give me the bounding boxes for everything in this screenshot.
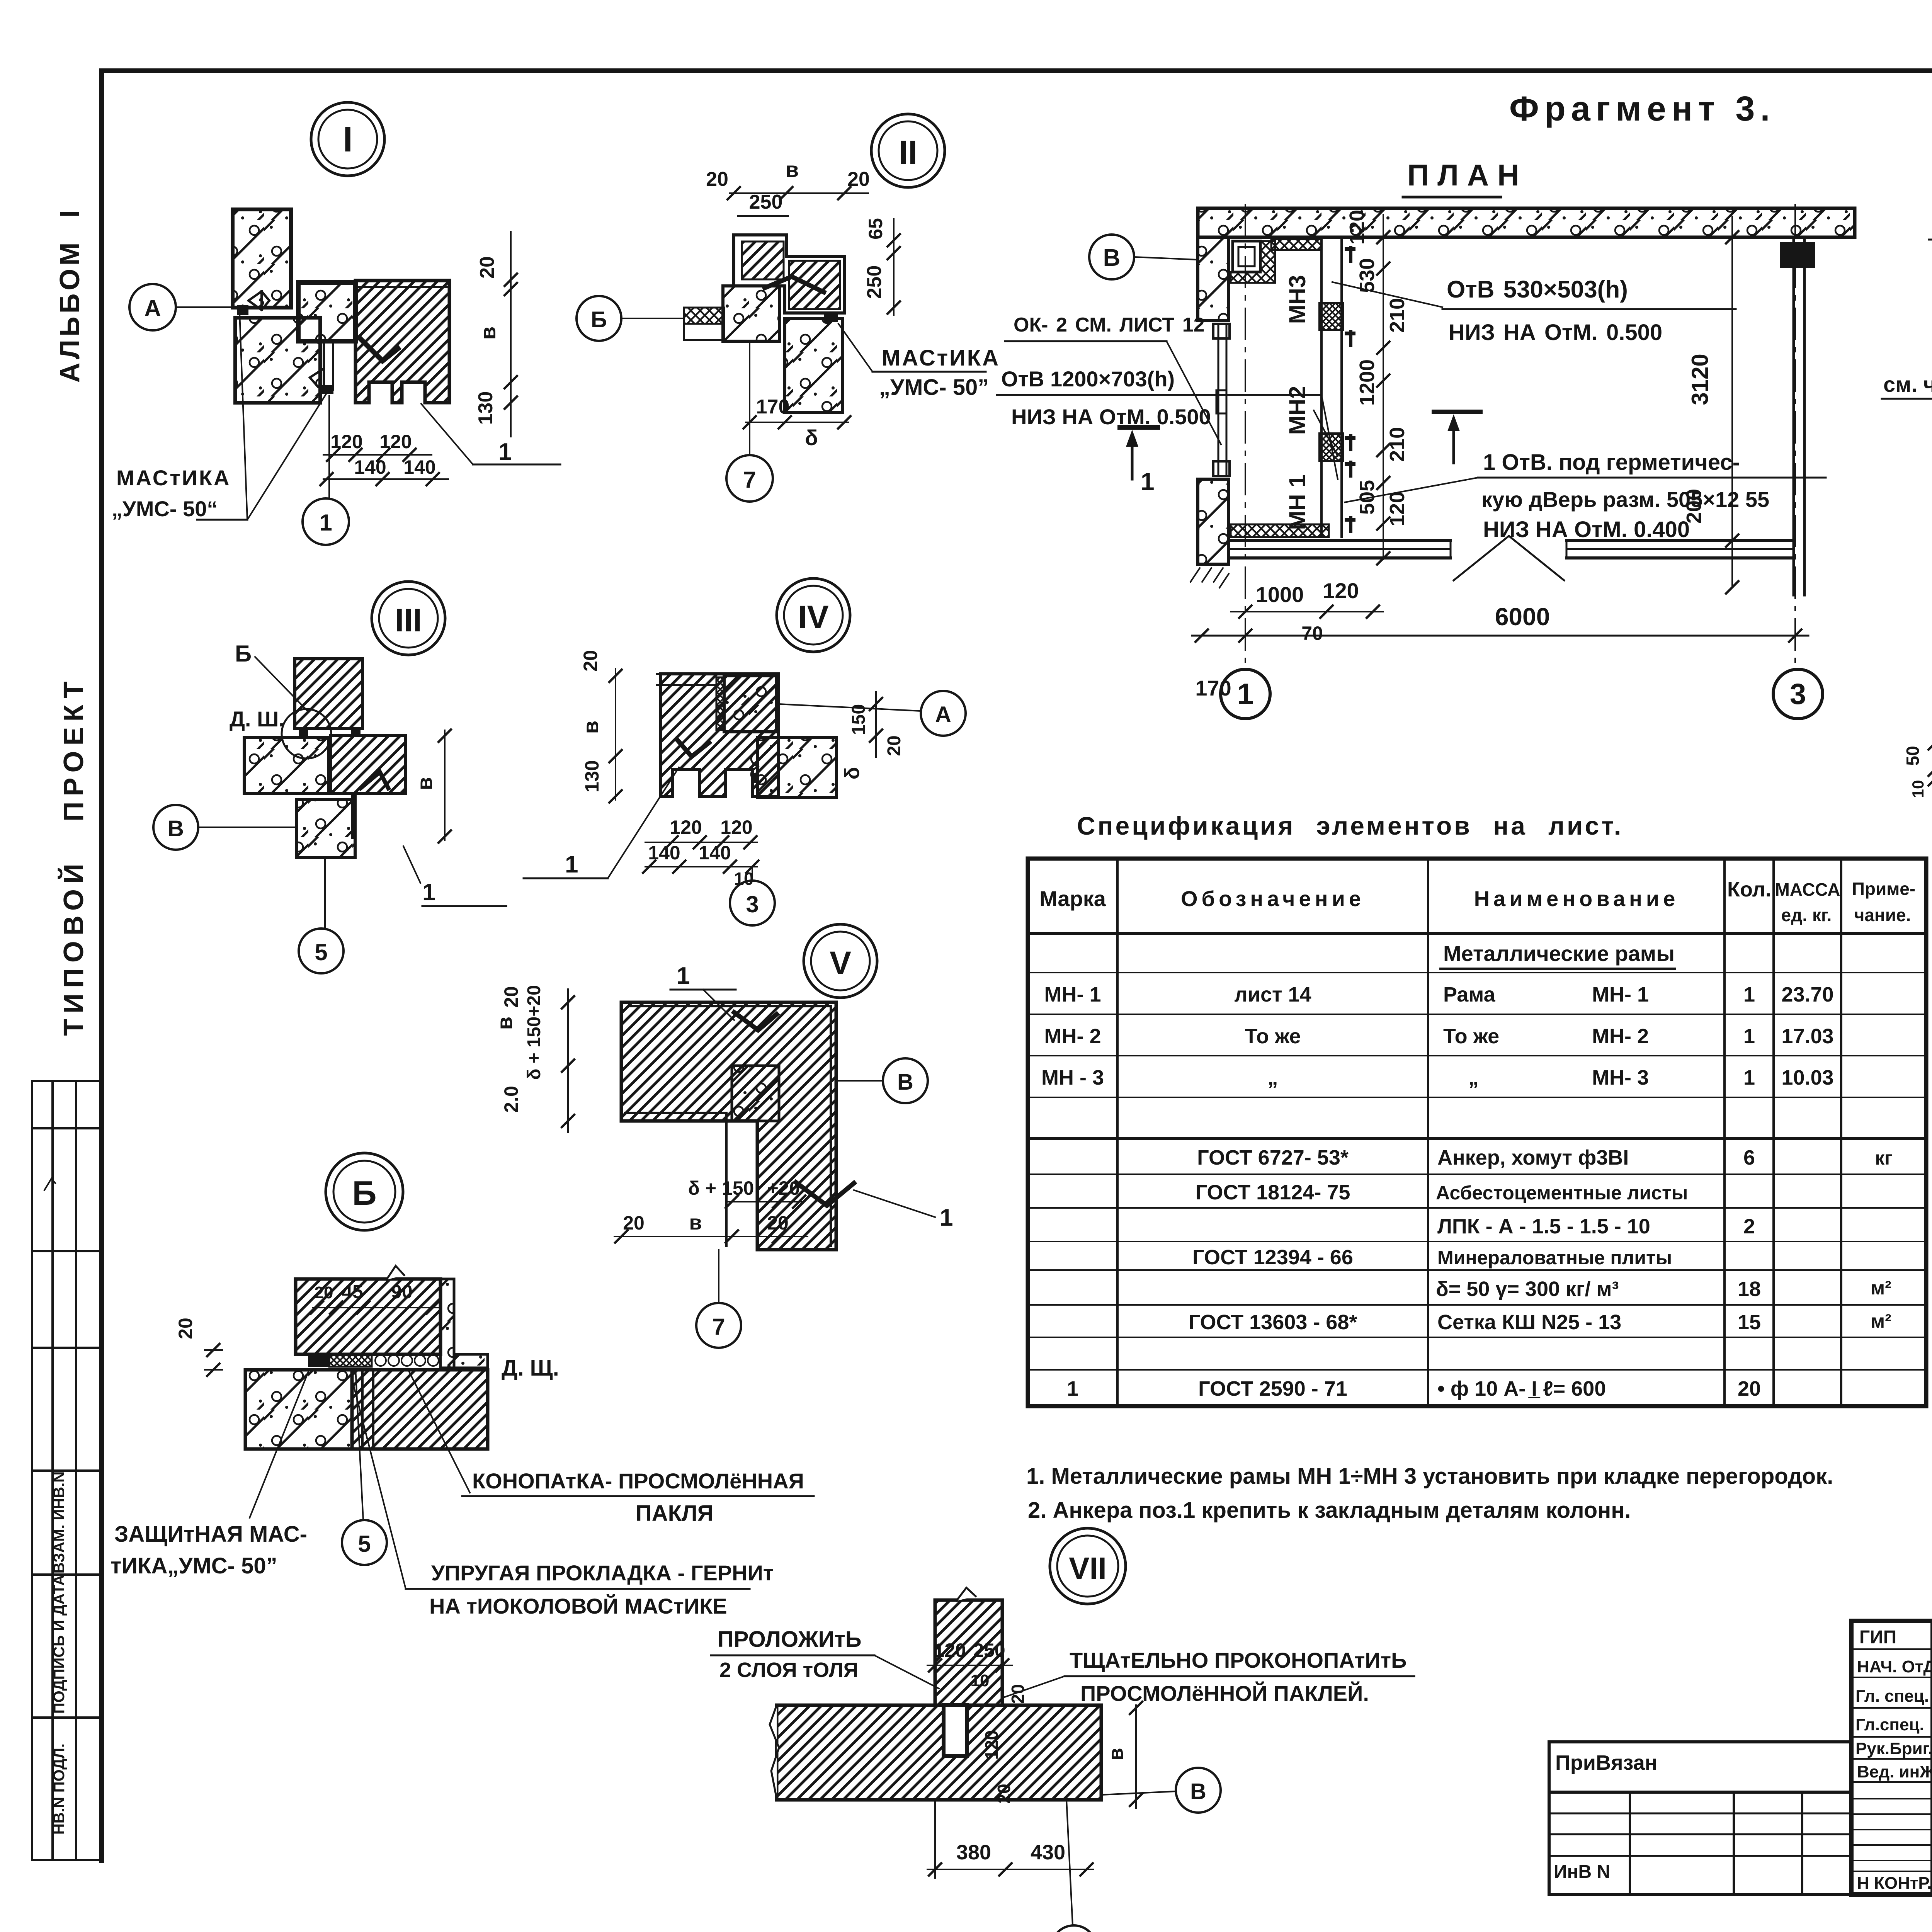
detail I view marker xyxy=(311,102,384,176)
svg-text:То же: То же xyxy=(1245,1025,1301,1048)
svg-text:МН 1: МН 1 xyxy=(1284,474,1310,530)
plan: bottom dimension chain 1000/120/70 xyxy=(1231,611,1383,612)
svg-text:20: 20 xyxy=(1008,1684,1028,1704)
plan: left wall upper segment xyxy=(1198,237,1229,321)
detail III left concrete block xyxy=(244,738,329,794)
detail I concrete key block xyxy=(298,282,355,341)
svg-text:Минераловатные плиты: Минераловатные плиты xyxy=(1437,1247,1672,1269)
svg-text:НВ.N ПОДЛ.: НВ.N ПОДЛ. xyxy=(51,1743,68,1835)
svg-text:ОтВ 530×503(h): ОтВ 530×503(h) xyxy=(1447,276,1628,303)
detail I bottom dims xyxy=(323,454,432,456)
detail IV anchor zigzag xyxy=(677,740,709,757)
svg-text:1: 1 xyxy=(422,879,435,906)
svg-text:1. Металлические рамы МН 1÷: 1. Металлические рамы МН 1÷МН 3 установи… xyxy=(1026,1464,1833,1489)
detail VII grid bubble V xyxy=(1176,1768,1221,1813)
svg-text:1: 1 xyxy=(1067,1377,1078,1400)
svg-text:Д. Ш.: Д. Ш. xyxy=(230,707,285,731)
svg-text:ТИПОВОЙ: ТИПОВОЙ xyxy=(58,858,89,1036)
svg-text:70: 70 xyxy=(1301,622,1323,644)
svg-text:ГОСТ 13603 - 68*: ГОСТ 13603 - 68* xyxy=(1189,1311,1357,1334)
plan: grid bubble 1 xyxy=(1221,669,1270,719)
detail IV grid bubble A xyxy=(921,691,966,736)
detail V inner sheet lines xyxy=(625,1113,726,1246)
svg-text:1: 1 xyxy=(1743,983,1755,1006)
detail III joint bar xyxy=(351,794,357,839)
detail V view marker xyxy=(804,924,877,998)
svg-text:IV: IV xyxy=(798,599,828,635)
svg-text:140: 140 xyxy=(648,842,680,864)
svg-text:3: 3 xyxy=(746,891,759,917)
svg-text:В: В xyxy=(168,816,184,841)
svg-text:+20: +20 xyxy=(767,1177,800,1199)
svg-text:ВЗАМ. ИНВ.N: ВЗАМ. ИНВ.N xyxy=(51,1471,68,1573)
svg-text:ГИП: ГИП xyxy=(1859,1627,1896,1648)
detail V pos 1 right xyxy=(854,1190,935,1217)
svg-text:210: 210 xyxy=(1386,298,1409,333)
detail B leader to mastic note xyxy=(250,1370,309,1518)
svg-text:20: 20 xyxy=(175,1318,196,1339)
svg-text:250: 250 xyxy=(973,1639,1005,1661)
svg-text:45: 45 xyxy=(342,1281,363,1303)
plan: partition anchor block upper xyxy=(1320,303,1343,330)
plan: section mark 1 left xyxy=(1120,425,1158,430)
svg-text:ЛПК - А - 1.5 - 1.5 - 10: ЛПК - А - 1.5 - 1.5 - 10 xyxy=(1437,1215,1650,1238)
plan: window OK-2 frame in left wall xyxy=(1218,324,1219,476)
svg-text:20: 20 xyxy=(847,168,870,190)
svg-text:ед. кг.: ед. кг. xyxy=(1781,905,1832,925)
svg-text:Кол.: Кол. xyxy=(1727,878,1771,901)
detail B joint lines xyxy=(361,1370,364,1449)
svg-text:тИКА„УМС- 50”: тИКА„УМС- 50” xyxy=(111,1553,277,1578)
svg-text:МАССА: МАССА xyxy=(1775,879,1840,900)
svg-text:см. чертежи ов: см. чертежи ов xyxy=(1883,372,1932,396)
svg-text:2.0: 2.0 xyxy=(500,1086,522,1113)
svg-text:в: в xyxy=(578,721,603,734)
svg-text:кг: кг xyxy=(1875,1147,1893,1169)
detail IV bottom dims xyxy=(645,842,757,843)
svg-text:20: 20 xyxy=(623,1212,645,1234)
detail IV top right concrete square xyxy=(724,676,777,732)
detail II top dims xyxy=(730,192,868,194)
detail III mastic feet xyxy=(299,728,308,736)
svg-text:МН- 3: МН- 3 xyxy=(1592,1066,1649,1089)
frame left edge xyxy=(99,71,104,1861)
svg-text:20: 20 xyxy=(500,986,522,1008)
detail B inner dims 20 45 90 xyxy=(313,1307,440,1308)
detail IV top sheet lines xyxy=(657,673,779,675)
detail III right brick block xyxy=(331,736,406,794)
svg-text:ПЛАН: ПЛАН xyxy=(1407,158,1527,192)
svg-text:ПРОСМОЛёННОЙ ПАКЛЕЙ.: ПРОСМОЛёННОЙ ПАКЛЕЙ. xyxy=(1080,1681,1369,1706)
svg-text:Д. Щ.: Д. Щ. xyxy=(502,1355,559,1381)
spec table frame xyxy=(1028,859,1926,1406)
plan: dimension 3120 line xyxy=(1731,216,1733,587)
left margin check mark xyxy=(44,1179,55,1190)
detail II sheet strip xyxy=(684,324,724,340)
detail B right concrete strip xyxy=(440,1279,454,1368)
svg-text:5: 5 xyxy=(315,939,327,965)
detail II bottom dims xyxy=(746,422,848,423)
svg-text:Сетка КШ N25 - 13: Сетка КШ N25 - 13 xyxy=(1437,1311,1621,1334)
svg-text:δ + 150+20: δ + 150+20 xyxy=(524,985,544,1080)
svg-text:10: 10 xyxy=(1909,780,1927,798)
sheet top border line xyxy=(102,68,1932,73)
svg-text:130: 130 xyxy=(581,760,603,792)
detail B mastic strip xyxy=(308,1355,329,1367)
svg-text:Рук.Бриг.: Рук.Бриг. xyxy=(1855,1739,1932,1758)
svg-text:НИЗ НА ОтМ. 0.400: НИЗ НА ОтМ. 0.400 xyxy=(1483,517,1690,542)
plan: bottom dimension 6000/170 xyxy=(1192,635,1808,637)
svg-text:МН- 1: МН- 1 xyxy=(1592,983,1649,1006)
detail I concrete panel vertical xyxy=(233,209,291,308)
detail V left dim chain xyxy=(567,989,569,1132)
svg-text:1: 1 xyxy=(1237,678,1253,711)
svg-text:в: в xyxy=(412,777,437,790)
svg-text:ГОСТ 18124- 75: ГОСТ 18124- 75 xyxy=(1196,1181,1350,1204)
svg-text:430: 430 xyxy=(1031,1841,1065,1864)
svg-text:А: А xyxy=(935,702,951,727)
svg-text:6000: 6000 xyxy=(1495,603,1550,631)
detail II insulation strip xyxy=(684,308,724,324)
svg-text:чание.: чание. xyxy=(1854,905,1911,925)
detail VII bottom dims xyxy=(927,1869,1094,1870)
svg-text:120: 120 xyxy=(670,816,702,838)
plan: door opening break xyxy=(1454,536,1564,580)
detail III dim v xyxy=(444,730,446,840)
plan: ground hatch under left wall xyxy=(1190,568,1229,588)
svg-text:в: в xyxy=(492,1017,517,1030)
svg-text:• ф 10 А- I̲ ℓ= 600: • ф 10 А- I̲ ℓ= 600 xyxy=(1437,1377,1606,1400)
svg-text:I: I xyxy=(343,120,353,159)
svg-text:1: 1 xyxy=(677,963,690,989)
privyazan table frame xyxy=(1549,1742,1851,1895)
detail II stepped panel outer xyxy=(734,235,844,313)
svg-text:НИЗ НА ОтМ. 0.500: НИЗ НА ОтМ. 0.500 xyxy=(1449,320,1662,345)
svg-text:20: 20 xyxy=(476,256,498,279)
plan: bottom insulation band xyxy=(1231,524,1329,537)
svg-text:δ= 50 γ= 300 кг/ м³: δ= 50 γ= 300 кг/ м³ xyxy=(1436,1277,1619,1301)
plan: grid bubble 3 xyxy=(1773,669,1823,719)
detail V anchor lower xyxy=(796,1182,854,1206)
detail B upper block break mark xyxy=(386,1266,404,1280)
detail I leader to pos 1 xyxy=(421,404,473,464)
svg-text:МН- 2: МН- 2 xyxy=(1044,1025,1101,1048)
svg-text:А: А xyxy=(144,295,161,321)
detail II stepped panel inner hatch right xyxy=(789,261,840,309)
detail V grid bubble V xyxy=(883,1058,928,1103)
svg-text:В: В xyxy=(1103,245,1121,271)
plan: bottom wall left segment xyxy=(1231,539,1451,542)
svg-text:2: 2 xyxy=(1743,1215,1755,1238)
plan: partition line left xyxy=(1320,239,1323,537)
svg-text:20: 20 xyxy=(315,1283,333,1302)
plan: right partition wall xyxy=(1793,237,1795,595)
detail VII dim v right xyxy=(1135,1705,1137,1808)
svg-text:„УМС- 50“: „УМС- 50“ xyxy=(112,497,218,521)
svg-text:120: 120 xyxy=(1386,492,1409,526)
svg-text:м²: м² xyxy=(1871,1277,1891,1299)
detail B gasket strip xyxy=(329,1355,372,1367)
detail III top brick block xyxy=(295,659,362,728)
svg-text:20: 20 xyxy=(706,168,728,190)
svg-text:МН - 3: МН - 3 xyxy=(1041,1066,1104,1089)
svg-text:20: 20 xyxy=(884,735,905,756)
svg-text:лист 14: лист 14 xyxy=(1234,983,1311,1006)
svg-text:5: 5 xyxy=(358,1531,371,1557)
detail I concrete panel lower xyxy=(235,318,320,403)
detail V anchor upper xyxy=(734,1012,777,1030)
svg-text:То же: То же xyxy=(1443,1025,1499,1048)
svg-text:ОК- 2 СМ. ЛИСТ 12: ОК- 2 СМ. ЛИСТ 12 xyxy=(1014,314,1205,336)
detail IV main block with teeth xyxy=(661,674,779,796)
plan: grid bubble V xyxy=(1089,235,1134,279)
svg-text:120: 120 xyxy=(981,1730,1002,1760)
plan: frame MN3 top strip xyxy=(1271,239,1321,250)
svg-text:VII: VII xyxy=(1069,1551,1107,1585)
plan: partition bracket marks xyxy=(1345,247,1355,251)
svg-text:„: „ xyxy=(1468,1066,1479,1089)
svg-text:Анкер, хомут ф3ВI: Анкер, хомут ф3ВI xyxy=(1437,1146,1629,1169)
svg-text:1000: 1000 xyxy=(1256,582,1304,607)
plan: bottom wall right segment xyxy=(1566,539,1794,542)
svg-text:МН- 2: МН- 2 xyxy=(1592,1025,1649,1048)
detail VII slab left break xyxy=(770,1705,779,1799)
svg-text:2. Анкера поз.1 крепить к: 2. Анкера поз.1 крепить к закладным дета… xyxy=(1028,1498,1631,1523)
svg-text:в: в xyxy=(476,327,500,340)
detail B view marker xyxy=(326,1153,403,1230)
svg-text:90: 90 xyxy=(391,1281,413,1303)
detail IV mastic square xyxy=(751,773,759,783)
svg-text:АЛЬБОМ I: АЛЬБОМ I xyxy=(54,207,85,383)
detail II stepped panel inner hatch upper xyxy=(742,241,784,279)
svg-text:ГОСТ 2590 - 71: ГОСТ 2590 - 71 xyxy=(1198,1377,1347,1400)
detail III bottom concrete block xyxy=(297,799,355,857)
svg-text:Н КОНтР.: Н КОНтР. xyxy=(1857,1874,1932,1893)
detail I mastic joint xyxy=(237,305,248,315)
left margin box podpis i data xyxy=(32,1716,102,1719)
svg-text:120: 120 xyxy=(720,816,752,838)
plan: top wall band xyxy=(1198,208,1855,237)
svg-text:В: В xyxy=(897,1070,913,1095)
svg-text:20: 20 xyxy=(580,650,601,672)
detail III grid bubble V xyxy=(153,805,198,850)
svg-text:„: „ xyxy=(1268,1066,1278,1089)
svg-text:3120: 3120 xyxy=(1687,354,1713,405)
svg-text:Обозначение: Обозначение xyxy=(1181,886,1365,911)
svg-text:10.03: 10.03 xyxy=(1781,1066,1833,1089)
detail II right dim chain xyxy=(893,219,895,315)
svg-text:17.03: 17.03 xyxy=(1781,1025,1833,1048)
plan: MN2 leader xyxy=(1314,410,1338,456)
detail B pos 5 bubble xyxy=(342,1520,387,1565)
detail II anchor zigzag xyxy=(765,277,824,292)
svg-text:Спецификация элементов н: Спецификация элементов на лист. xyxy=(1077,811,1623,840)
svg-text:Б: Б xyxy=(235,641,252,667)
svg-text:210: 210 xyxy=(1386,427,1409,462)
detail II concrete block lower right xyxy=(785,318,843,413)
svg-text:ГОСТ 12394 - 66: ГОСТ 12394 - 66 xyxy=(1192,1246,1353,1269)
svg-text:120: 120 xyxy=(1323,578,1359,603)
detail VII view marker xyxy=(1050,1528,1126,1604)
detail B right foot xyxy=(454,1354,488,1368)
svg-text:МН- 1: МН- 1 xyxy=(1044,983,1101,1006)
svg-text:120: 120 xyxy=(934,1639,966,1661)
svg-text:1200: 1200 xyxy=(1355,359,1379,406)
svg-text:120: 120 xyxy=(1345,210,1369,245)
svg-text:Металлические рамы: Металлические рамы xyxy=(1443,941,1675,966)
svg-text:КОНОПАтКА- ПРОСМОЛёННАЯ: КОНОПАтКА- ПРОСМОЛёННАЯ xyxy=(472,1469,804,1493)
detail IV insulation strip xyxy=(716,677,724,730)
plan: corner column insulation L xyxy=(1231,241,1275,283)
svg-text:10: 10 xyxy=(971,1671,990,1690)
detail VII wall strip xyxy=(935,1600,1002,1705)
detail I pos 1 bubble xyxy=(303,498,349,545)
svg-text:„УМС- 50”: „УМС- 50” xyxy=(879,375,989,400)
svg-text:1: 1 xyxy=(1141,468,1155,495)
title block staff columns xyxy=(1930,1621,1932,1895)
detail VII dims above xyxy=(927,1665,1012,1666)
detail IV pos 3 bubble xyxy=(730,881,775,925)
svg-text:Фрагмент 3.: Фрагмент 3. xyxy=(1509,90,1775,128)
svg-text:Наименование: Наименование xyxy=(1474,886,1679,911)
svg-text:65: 65 xyxy=(865,218,886,240)
detail I joint wave xyxy=(248,291,269,310)
plan: vertical dimension chain xyxy=(1383,215,1384,560)
svg-text:V: V xyxy=(830,945,851,981)
detail V pos 7 bubble xyxy=(696,1303,741,1348)
svg-text:в: в xyxy=(786,157,799,182)
detail B lower left concrete block xyxy=(245,1370,352,1449)
svg-text:120: 120 xyxy=(379,431,412,452)
detail I right dim chain xyxy=(510,232,512,437)
svg-text:МН2: МН2 xyxy=(1284,386,1310,435)
svg-text:Приме-: Приме- xyxy=(1852,879,1915,899)
svg-text:УПРУГАЯ ПРОКЛАДКА - ГЕРНИт: УПРУГАЯ ПРОКЛАДКА - ГЕРНИт xyxy=(431,1561,774,1585)
detail II mastic square xyxy=(824,312,838,322)
svg-text:Марка: Марка xyxy=(1039,886,1106,911)
svg-text:140: 140 xyxy=(699,842,731,864)
detail II pos 7 bubble xyxy=(726,455,773,502)
svg-text:150: 150 xyxy=(849,704,869,735)
svg-text:II: II xyxy=(899,134,917,171)
plan: left wall lower segment xyxy=(1198,479,1229,564)
left margin box vzam inv xyxy=(32,1573,102,1576)
detail IV joint wave xyxy=(751,751,758,782)
detail I anchor zigzag xyxy=(361,340,398,361)
svg-text:15: 15 xyxy=(1738,1311,1761,1334)
svg-text:ПАКЛЯ: ПАКЛЯ xyxy=(636,1501,713,1526)
detail V corner panel L shape xyxy=(621,1002,836,1250)
detail VII grid bubble b xyxy=(1051,1925,1096,1932)
detail I joint below key xyxy=(323,341,325,389)
detail I brick block with teeth xyxy=(355,281,449,403)
svg-text:кую дВерь разм. 505×12 55: кую дВерь разм. 505×12 55 xyxy=(1481,487,1769,512)
detail III view marker xyxy=(372,582,445,655)
title block staff rows xyxy=(1851,1648,1932,1650)
plan: grid line 3 xyxy=(1794,205,1796,669)
svg-text:Б: Б xyxy=(591,307,607,332)
svg-text:ИнВ N: ИнВ N xyxy=(1554,1862,1610,1882)
detail III pos 5 bubble xyxy=(299,929,344,973)
svg-text:ПриВязан: ПриВязан xyxy=(1555,1751,1657,1774)
detail I brick block top band xyxy=(355,286,449,288)
detail II grid bubble B xyxy=(577,296,621,341)
svg-text:20: 20 xyxy=(994,1784,1014,1803)
svg-text:δ + 150: δ + 150 xyxy=(688,1177,754,1199)
detail IV right concrete block xyxy=(758,738,837,798)
svg-text:50: 50 xyxy=(1903,746,1923,765)
svg-text:НА тИОКОЛОВОЙ МАСтИКЕ: НА тИОКОЛОВОЙ МАСтИКЕ xyxy=(429,1594,727,1618)
svg-text:Гл.спец.: Гл.спец. xyxy=(1855,1715,1924,1734)
plan: grid line 1 xyxy=(1245,205,1246,669)
svg-text:1: 1 xyxy=(1743,1025,1755,1048)
svg-text:250: 250 xyxy=(863,265,886,299)
detail VII floor slab xyxy=(777,1705,1101,1800)
svg-text:В: В xyxy=(1190,1779,1206,1804)
plan: corner column block xyxy=(1233,241,1260,272)
svg-text:7: 7 xyxy=(712,1314,725,1340)
svg-text:ГОСТ 6727- 53*: ГОСТ 6727- 53* xyxy=(1197,1146,1349,1169)
svg-text:в: в xyxy=(1104,1748,1128,1760)
svg-text:ЗАЩИтНАЯ МАС-: ЗАЩИтНАЯ МАС- xyxy=(114,1522,307,1547)
detail I grid bubble A xyxy=(129,284,176,330)
detail IV left dim chain xyxy=(615,668,616,800)
left margin attachment table xyxy=(32,1080,102,1082)
svg-text:250: 250 xyxy=(749,191,783,213)
svg-text:ПОДПИСЬ И ДАТА: ПОДПИСЬ И ДАТА xyxy=(51,1575,68,1714)
detail B lower right brick block xyxy=(352,1370,488,1449)
svg-text:III: III xyxy=(395,602,422,638)
svg-text:130: 130 xyxy=(474,391,497,425)
title block frame xyxy=(1851,1621,1932,1895)
svg-text:Асбестоцементные листы: Асбестоцементные листы xyxy=(1436,1182,1688,1204)
svg-text:1: 1 xyxy=(319,510,332,536)
svg-text:18: 18 xyxy=(1738,1277,1761,1301)
detail IV view marker xyxy=(777,578,850,652)
svg-text:ТЩАтЕЛЬНО ПРОКОНОПАтИтЬ: ТЩАтЕЛЬНО ПРОКОНОПАтИтЬ xyxy=(1070,1648,1406,1672)
left margin box inv n podl xyxy=(32,1859,102,1861)
svg-text:1: 1 xyxy=(940,1204,953,1231)
svg-text:140: 140 xyxy=(403,456,435,478)
detail II concrete block left xyxy=(723,286,779,341)
svg-text:δ: δ xyxy=(840,767,864,780)
detail V inner concrete square xyxy=(732,1066,779,1121)
plan: section mark 1 middle xyxy=(1434,410,1480,414)
svg-text:23.70: 23.70 xyxy=(1781,983,1833,1006)
svg-text:МН3: МН3 xyxy=(1284,275,1310,324)
svg-text:МАСтИКА: МАСтИКА xyxy=(882,345,1000,371)
plan: partition anchor block lower xyxy=(1320,434,1343,461)
svg-text:Гл. спец.: Гл. спец. xyxy=(1855,1687,1929,1706)
svg-text:Вед. инЖ.: Вед. инЖ. xyxy=(1857,1762,1932,1781)
detail B leader to oakum note xyxy=(408,1369,470,1493)
svg-text:ПРОЛОЖИтЬ: ПРОЛОЖИтЬ xyxy=(718,1627,862,1652)
svg-text:20: 20 xyxy=(767,1212,789,1234)
svg-text:Рама: Рама xyxy=(1443,983,1496,1006)
detail B upper brick block xyxy=(296,1279,440,1354)
svg-text:в: в xyxy=(689,1211,702,1234)
svg-text:2 СЛОЯ тОЛЯ: 2 СЛОЯ тОЛЯ xyxy=(719,1658,859,1682)
svg-text:ОтВ 1200×703(h): ОтВ 1200×703(h) xyxy=(1001,367,1175,391)
svg-text:6: 6 xyxy=(1743,1146,1755,1169)
plan: partition line right xyxy=(1340,239,1343,537)
detail III highlight oval xyxy=(282,709,331,759)
svg-text:20: 20 xyxy=(1738,1377,1761,1400)
svg-text:7: 7 xyxy=(743,467,756,493)
svg-text:380: 380 xyxy=(956,1841,991,1864)
svg-text:м²: м² xyxy=(1871,1310,1891,1332)
svg-text:НИЗ НА ОтМ. 0.500: НИЗ НА ОтМ. 0.500 xyxy=(1011,405,1211,429)
